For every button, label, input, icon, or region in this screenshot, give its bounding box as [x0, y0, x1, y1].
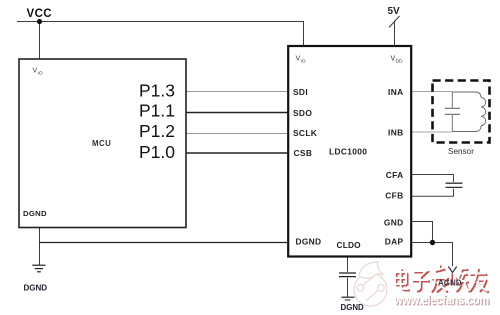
- svg-text:SDI: SDI: [293, 87, 308, 97]
- svg-text:5V: 5V: [388, 6, 401, 17]
- svg-text:P1.2: P1.2: [139, 121, 175, 141]
- svg-text:GND: GND: [384, 217, 404, 227]
- svg-text:P1.0: P1.0: [139, 142, 175, 162]
- svg-text:DD: DD: [396, 59, 403, 65]
- svg-text:IO: IO: [301, 59, 306, 65]
- svg-text:Sensor: Sensor: [448, 147, 474, 156]
- svg-text:LDC1000: LDC1000: [329, 147, 367, 157]
- svg-text:CLDO: CLDO: [337, 240, 362, 250]
- svg-text:DAP: DAP: [385, 237, 404, 247]
- svg-text:CFB: CFB: [385, 191, 403, 201]
- svg-text:IO: IO: [38, 71, 43, 77]
- svg-text:INB: INB: [388, 128, 403, 138]
- svg-text:CFA: CFA: [386, 170, 404, 180]
- svg-text:DGND: DGND: [23, 209, 47, 218]
- svg-text:INA: INA: [388, 87, 403, 97]
- svg-text:SDO: SDO: [293, 108, 312, 118]
- svg-text:SCLK: SCLK: [293, 128, 317, 138]
- svg-text:DGND: DGND: [341, 303, 365, 312]
- svg-text:P1.1: P1.1: [139, 101, 175, 121]
- svg-text:DGND: DGND: [296, 237, 322, 247]
- svg-text:CSB: CSB: [294, 148, 313, 158]
- svg-text:AGND: AGND: [438, 279, 462, 288]
- svg-text:DGND: DGND: [24, 284, 48, 293]
- svg-text:www.elecfans.com: www.elecfans.com: [393, 292, 489, 307]
- svg-text:MCU: MCU: [92, 139, 111, 148]
- svg-text:P1.3: P1.3: [139, 81, 175, 101]
- svg-text:VCC: VCC: [27, 8, 52, 20]
